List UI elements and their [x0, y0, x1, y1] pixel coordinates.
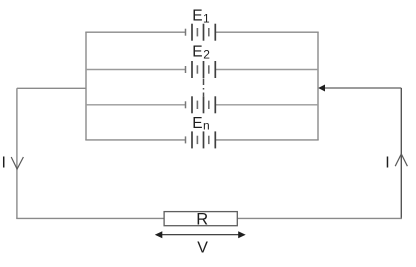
label V: [197, 240, 208, 257]
label E1: [192, 8, 210, 26]
wire: branch 4 right segment: [215, 139, 318, 141]
wire: branch 3 right segment: [215, 104, 318, 106]
wire: branch 2 right segment: [215, 69, 318, 71]
current arrow I (right, pointing up, open chevron): [395, 154, 407, 166]
label En: [192, 115, 209, 133]
battery En (two cells): [186, 131, 216, 148]
resistor R (box): [164, 212, 237, 226]
wire: branch 2 left segment: [86, 69, 186, 71]
current arrow I (left, pointing down, open chevron): [11, 157, 23, 169]
wire: bottom left segment: [16, 217, 164, 219]
label I (right): [385, 155, 389, 172]
svg-text:E: E: [192, 8, 202, 25]
wire: branch 1 left segment: [85, 31, 185, 33]
wire: branch 3 left segment: [86, 104, 186, 106]
svg-text:E: E: [192, 44, 202, 61]
wire: bottom right segment: [237, 217, 402, 219]
wire: branch 1 right segment: [215, 31, 318, 33]
battery E2 (two cells): [186, 61, 216, 78]
svg-text:1: 1: [203, 11, 210, 25]
wire: left bus vertical (inner rectangle left side): [85, 32, 87, 140]
ellipsis dash-dot line between branch 2 and branch 3: [203, 79, 205, 97]
svg-text:V: V: [197, 240, 208, 257]
svg-text:n: n: [203, 119, 210, 133]
wire: branch 4 left segment: [85, 139, 185, 141]
label R: [196, 210, 208, 228]
label I (left): [2, 155, 6, 172]
wire: right bus vertical (inner rectangle right side): [317, 32, 319, 140]
battery E1 (two cells): [186, 24, 216, 41]
wire: right outer vertical: [400, 88, 402, 218]
wire: left lead from bus to outer loop (node at y=88): [17, 87, 86, 89]
svg-text:I: I: [2, 155, 6, 172]
svg-text:R: R: [196, 210, 208, 228]
svg-text:2: 2: [203, 48, 210, 62]
wire: right lead from outer loop to bus (with arrow): [323, 87, 401, 89]
wire: left outer vertical: [16, 88, 18, 218]
svg-text:E: E: [192, 115, 202, 132]
battery (unlabeled branch, two cells): [186, 96, 216, 113]
label E2: [192, 44, 210, 62]
arrowhead into right bus (filled, pointing left): [318, 85, 325, 92]
svg-text:I: I: [385, 155, 389, 172]
voltage arrow V (double-headed): [155, 231, 246, 238]
